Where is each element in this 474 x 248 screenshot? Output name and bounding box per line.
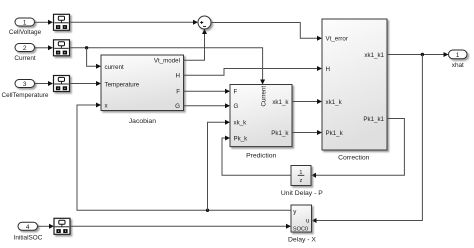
svg-text:xhat: xhat bbox=[452, 62, 464, 69]
rate transition RT4 bbox=[54, 218, 70, 234]
svg-text:xk1_k: xk1_k bbox=[272, 99, 289, 106]
wire Prediction xk1_k to Correction xk1_k bbox=[292, 99, 322, 104]
svg-text:2: 2 bbox=[23, 45, 27, 52]
Prediction block bbox=[230, 85, 292, 160]
svg-text:G: G bbox=[234, 103, 239, 110]
wire Jacobian F to Prediction F bbox=[184, 89, 231, 94]
wire RT1 to sum bbox=[70, 20, 199, 25]
svg-text:3: 3 bbox=[23, 81, 27, 88]
svg-text:SOC0: SOC0 bbox=[293, 226, 308, 232]
Delay - X block bbox=[288, 205, 316, 244]
svg-text:Pk1_k: Pk1_k bbox=[326, 130, 344, 137]
svg-text:Unit Delay - P: Unit Delay - P bbox=[281, 190, 323, 197]
wire Jacobian H to Correction H bbox=[184, 66, 323, 75]
rate transition RT1 bbox=[54, 14, 70, 30]
wire Prediction Pk1_k to Correction Pk1_k bbox=[292, 130, 322, 135]
svg-text:G: G bbox=[175, 103, 180, 110]
svg-text:xk1_k1: xk1_k1 bbox=[364, 52, 384, 59]
wire Jacobian G to Prediction G bbox=[184, 103, 231, 108]
wire Jacobian Vt_model to sum minus bbox=[184, 29, 208, 60]
wire inport4 to RT4 bbox=[38, 224, 55, 229]
svg-text:Pk1_k: Pk1_k bbox=[271, 130, 289, 137]
Unit Delay - P block bbox=[281, 166, 323, 198]
svg-text:F: F bbox=[176, 89, 180, 96]
wire Unit Delay P out to Prediction Pk_k bbox=[222, 136, 291, 176]
svg-text:Vt_model: Vt_model bbox=[154, 58, 180, 65]
svg-text:Correction: Correction bbox=[338, 155, 370, 162]
svg-text:Current: Current bbox=[261, 86, 268, 107]
junction current bbox=[85, 46, 88, 49]
svg-text:z: z bbox=[299, 178, 302, 184]
svg-text:Prediction: Prediction bbox=[246, 153, 276, 160]
wire junction to Prediction xk_k bbox=[208, 120, 231, 211]
outport 1 xhat bbox=[449, 50, 468, 69]
svg-text:Pk_k: Pk_k bbox=[234, 135, 249, 142]
Correction block bbox=[322, 19, 387, 162]
svg-text:1: 1 bbox=[456, 52, 460, 59]
wire RT2 to Prediction Current (top) bbox=[70, 48, 266, 85]
svg-text:xk1_k: xk1_k bbox=[326, 99, 343, 106]
svg-text:Current: Current bbox=[14, 55, 36, 62]
svg-text:current: current bbox=[105, 64, 125, 71]
wire Correction xk1_k1 to outport xhat bbox=[387, 52, 449, 57]
svg-text:4: 4 bbox=[26, 224, 30, 231]
wire junction to Jacobian current bbox=[87, 48, 101, 69]
wire RT3 to Jacobian Temperature bbox=[70, 81, 102, 86]
wire RT4 to Delay-X x0 bbox=[70, 224, 291, 229]
svg-text:xk_k: xk_k bbox=[234, 120, 248, 127]
svg-text:Delay - X: Delay - X bbox=[288, 237, 316, 244]
svg-text:H: H bbox=[176, 73, 180, 80]
rate transition RT3 bbox=[54, 76, 70, 92]
sum block bbox=[198, 16, 211, 29]
junction x feedback bbox=[206, 209, 209, 212]
junction xk1_k1 bbox=[421, 53, 424, 56]
wire inport2 to RT2 bbox=[35, 45, 54, 50]
svg-text:1: 1 bbox=[23, 20, 27, 27]
wire Delay-X y out to Jacobian x bbox=[77, 103, 291, 211]
inport 4 InitialSOC bbox=[14, 222, 43, 241]
svg-text:Jacobian: Jacobian bbox=[129, 118, 156, 125]
svg-text:CellVoltage: CellVoltage bbox=[9, 29, 42, 36]
svg-text:Pk1_k1: Pk1_k1 bbox=[363, 116, 384, 123]
svg-text:u: u bbox=[306, 217, 310, 224]
svg-text:Vt_error: Vt_error bbox=[326, 36, 348, 43]
svg-text:H: H bbox=[326, 66, 330, 73]
svg-text:CellTemperature: CellTemperature bbox=[2, 92, 49, 99]
inport 2 Current bbox=[14, 44, 36, 62]
svg-text:F: F bbox=[234, 89, 238, 96]
wire inport3 to RT3 bbox=[35, 81, 54, 86]
svg-text:InitialSOC: InitialSOC bbox=[14, 234, 43, 241]
wire junction to Delay-X u bbox=[312, 55, 423, 224]
wire Correction Pk1_k1 to Unit Delay P bbox=[311, 119, 404, 178]
wire inport1 to RT1 bbox=[35, 20, 54, 25]
inport 1 CellVoltage bbox=[9, 18, 42, 36]
Jacobian block bbox=[101, 55, 184, 125]
svg-text:Temperature: Temperature bbox=[105, 81, 140, 88]
wire sum to Correction Vt_error bbox=[211, 23, 322, 41]
rate transition RT2 bbox=[54, 40, 70, 56]
inport 3 CellTemperature bbox=[2, 80, 49, 100]
